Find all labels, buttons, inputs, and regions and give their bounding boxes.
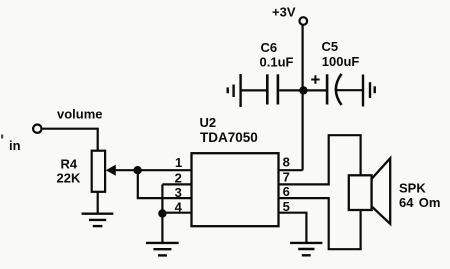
svg-text:U2: U2: [200, 115, 217, 130]
wire pin 4: [162, 212, 191, 214]
ground (below pin 4): [146, 243, 179, 256]
input terminal "in": [9, 106, 103, 152]
capacitor C5 100uF: [311, 39, 359, 105]
node junction dot (pin 4 / ground): [158, 209, 166, 217]
speaker SPK 64 Om: [349, 158, 441, 224]
svg-text:SPK: SPK: [399, 181, 426, 196]
wire node to C5: [303, 89, 326, 91]
svg-text:1: 1: [175, 155, 182, 170]
svg-text:C5: C5: [322, 39, 339, 54]
wire pin 5 to ground: [279, 213, 307, 243]
svg-text:3: 3: [175, 185, 182, 200]
wire pin 8 to +3V rail: [279, 169, 303, 171]
svg-text:TDA7050: TDA7050: [200, 130, 258, 145]
svg-text:7: 7: [283, 169, 290, 184]
svg-text:8: 8: [283, 155, 290, 170]
node junction dot (wiper node): [133, 166, 141, 174]
wire pin 7 loop to speaker top: [279, 135, 361, 184]
ground (left of C6): [228, 74, 241, 107]
wire pin2-pin3-pin4 tie down to ground: [161, 184, 163, 242]
svg-text:22K: 22K: [57, 171, 81, 186]
potentiometer R4 22K: [57, 151, 116, 192]
svg-text:100uF: 100uF: [322, 54, 360, 69]
wire +3V rail down to pin 8: [302, 25, 304, 170]
wire input to R4 top: [42, 129, 98, 152]
wire pin 3: [162, 197, 191, 199]
wire wiper to pin 1: [115, 169, 192, 171]
wire C5 to right ground: [336, 89, 363, 91]
capacitor C6 0.1uF: [260, 40, 294, 105]
svg-text:volume: volume: [57, 106, 103, 121]
svg-text:C6: C6: [261, 40, 278, 55]
op-amp IC U2 TDA7050: [192, 115, 279, 226]
scan artifact tick at left edge: [1, 135, 3, 139]
wire R4 bottom to ground: [97, 192, 99, 215]
wire wiper node down to pin 3 line: [138, 170, 163, 198]
svg-text:+3V: +3V: [272, 4, 296, 19]
node junction dot (supply node): [299, 86, 307, 94]
svg-text:R4: R4: [61, 157, 78, 172]
wire C6 to node: [279, 89, 303, 91]
svg-text:6: 6: [283, 184, 290, 199]
ground (below R4): [82, 214, 114, 226]
svg-text:4: 4: [175, 200, 183, 215]
wire ground to C6: [241, 89, 267, 91]
ground (below pin 5): [290, 243, 322, 255]
svg-text:64Om: 64Om: [399, 195, 440, 210]
terminal +3V: [272, 4, 307, 25]
svg-text:0.1uF: 0.1uF: [260, 54, 294, 69]
wire pin 2: [162, 183, 191, 185]
svg-text:in: in: [9, 138, 21, 153]
wire pin 6 loop to speaker bottom: [279, 198, 361, 249]
svg-text:2: 2: [175, 170, 182, 185]
ground (right of C5): [363, 75, 375, 107]
